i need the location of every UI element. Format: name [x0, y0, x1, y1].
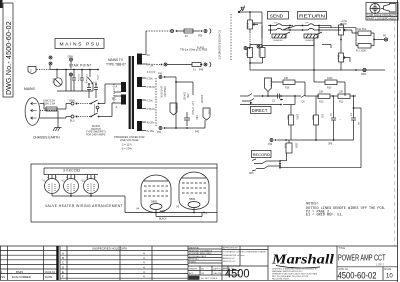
net label to heater elements	[197, 30, 222, 60]
svg-text:0v 20v: 0v 20v	[147, 129, 155, 133]
svg-text:BS45: BS45	[16, 270, 23, 274]
tube V1 heater	[43, 175, 60, 197]
svg-text:40 20v: 40 20v	[147, 121, 155, 125]
svg-text:1N4007: 1N4007	[183, 92, 186, 101]
svg-text:EXTERNAL RADII: EXTERNAL RADII	[189, 255, 206, 258]
pad BLU neutral	[70, 115, 90, 123]
svg-text:B: B	[62, 256, 64, 260]
svg-text:E: E	[62, 270, 64, 274]
svg-text:DO NOT SCALE: DO NOT SCALE	[201, 277, 218, 280]
svg-text:100K: 100K	[327, 77, 333, 80]
svg-text:TOLERANCE UNLESS OTHERWISE STA: TOLERANCE UNLESS OTHERWISE STATED	[223, 251, 267, 254]
svg-text:FOR 240V AMPS: FOR 240V AMPS	[86, 133, 106, 136]
fuse FS1	[43, 98, 66, 111]
svg-text:ISS: ISS	[1, 275, 6, 279]
inspection stamp	[366, 3, 398, 21]
svg-text:MAINS PSU: MAINS PSU	[60, 41, 101, 47]
svg-text:P43: P43	[158, 73, 163, 76]
RECORD label	[252, 151, 272, 158]
resistor R1 5K2	[245, 48, 253, 58]
svg-text:3 X ECC83: 3 X ECC83	[63, 169, 80, 173]
svg-text:TITLE: TITLE	[339, 247, 346, 250]
pad above star point	[49, 56, 73, 70]
svg-text:HOLE Ø ±0.1: HOLE Ø ±0.1	[223, 261, 236, 263]
svg-text:CHASSIS: CHASSIS	[273, 39, 283, 42]
svg-text:0 20v: 0 20v	[147, 77, 154, 81]
DWG number vertical box	[3, 3, 13, 97]
RETURN label	[298, 12, 327, 20]
svg-text:PART LOOSEFD ASSY: PART LOOSEFD ASSY	[367, 16, 397, 20]
bottom rail of V1 stage	[277, 138, 354, 146]
spark gap GD1	[88, 70, 99, 92]
output tube V5 5881	[176, 172, 209, 213]
primary winding P2	[121, 95, 126, 105]
bias trimmer VR3	[337, 39, 351, 70]
svg-text:CT8 0v: CT8 0v	[147, 107, 156, 111]
standby dashed wire	[156, 78, 166, 126]
svg-text:R12: R12	[339, 101, 344, 104]
svg-text:MAINS: MAINS	[24, 87, 35, 91]
svg-text:30PL: 30PL	[361, 73, 367, 76]
corner mark top-left	[0, 0, 3, 8]
drawing standards box	[188, 246, 240, 280]
svg-text:DIRECT: DIRECT	[252, 108, 268, 113]
star point bus	[50, 63, 99, 70]
svg-text:ANGLES ±1°: ANGLES ±1°	[223, 257, 235, 260]
svg-text:250V 1.6A: 250V 1.6A	[43, 101, 55, 105]
heater bus top	[44, 174, 98, 176]
svg-text:C50: C50	[175, 105, 178, 110]
svg-text:R1 5K2: R1 5K2	[245, 49, 248, 58]
pot VR2 10K	[339, 20, 353, 40]
long bus wire below jacks	[249, 58, 385, 71]
svg-text:4500: 4500	[225, 266, 250, 280]
pad P11	[244, 47, 250, 50]
svg-text:P48: P48	[199, 69, 204, 72]
svg-text:TYPE TBB-07: TYPE TBB-07	[106, 63, 126, 67]
title block	[337, 247, 398, 280]
svg-text:LINE VOLTAGE: LINE VOLTAGE	[120, 138, 139, 142]
capacitor C1	[65, 70, 67, 92]
svg-text:1 OF 2: 1 OF 2	[376, 263, 384, 267]
resistor R13 22K	[318, 91, 338, 104]
svg-text:R13: R13	[319, 101, 324, 104]
bottom title block	[0, 246, 398, 280]
svg-text:GRN: GRN	[68, 56, 74, 59]
svg-text:SEND: SEND	[270, 14, 284, 20]
star point lower bus	[57, 90, 93, 92]
wire live from inlet	[40, 103, 44, 105]
svg-text:BEND ALL: BEND ALL	[189, 258, 200, 261]
svg-text:B.A55: B.A55	[197, 46, 205, 50]
mains switch SW1	[86, 100, 106, 136]
svg-text:ECN NUMBER: ECN NUMBER	[12, 275, 31, 279]
svg-text:22K: 22K	[339, 91, 344, 94]
svg-text:APPROVED BY: APPROVED BY	[223, 247, 239, 250]
svg-text:INTERNAL BEND RADII: INTERNAL BEND RADII	[189, 252, 212, 255]
HT PSU pads P43	[147, 72, 176, 79]
tolerance box and model number	[222, 246, 268, 280]
vertical wire x262	[261, 12, 263, 38]
secondary winding S3	[137, 99, 142, 109]
svg-text:MAINS TX: MAINS TX	[108, 58, 124, 62]
Marshall logo box	[268, 246, 337, 281]
svg-text:R14: R14	[311, 116, 314, 121]
transformer T1 mains TX	[106, 53, 156, 151]
chassis earth symbol	[33, 128, 62, 140]
HT PSU bottom pads	[157, 120, 205, 134]
svg-text:22K: 22K	[319, 91, 324, 94]
svg-text:R.1 100K: R.1 100K	[356, 50, 366, 53]
output tube V4 5881	[136, 175, 171, 213]
capacitor C7	[349, 96, 360, 138]
svg-text:B C: B C	[112, 97, 116, 101]
svg-text:R16: R16	[285, 87, 290, 90]
svg-text:4500-60-02: 4500-60-02	[338, 270, 377, 280]
svg-text:100K: 100K	[296, 114, 299, 120]
svg-text:HT PSU: HT PSU	[191, 102, 195, 115]
svg-text:C: C	[62, 261, 64, 265]
svg-text:LEVEL: LEVEL	[246, 22, 249, 30]
svg-text:MATERIAL: MATERIAL	[189, 247, 200, 250]
svg-text:A: A	[62, 252, 64, 256]
svg-text:P2 C5: P2 C5	[269, 80, 272, 87]
record jack SK5	[249, 156, 361, 175]
SEND label	[268, 12, 289, 20]
DIRECT label	[251, 107, 272, 114]
svg-text:WHT/ORN: WHT/ORN	[160, 86, 163, 98]
primary link bracket	[113, 84, 115, 103]
svg-text:3A: 3A	[147, 53, 150, 57]
secondary winding S4	[137, 121, 142, 131]
svg-text:3P8: 3P8	[328, 143, 333, 146]
pad P15	[257, 45, 263, 48]
heater wires to output tubes	[125, 210, 217, 221]
capacitor C3	[80, 70, 87, 92]
svg-text:C50: C50	[195, 115, 198, 120]
resistor R11 5K2	[352, 28, 374, 36]
secondary winding S2	[137, 77, 142, 87]
svg-text:C3 10n: C3 10n	[85, 74, 87, 82]
svg-text:F: F	[62, 275, 64, 279]
resistor R12 22K	[338, 91, 356, 104]
heater bottom bus	[52, 195, 125, 212]
svg-text:FAX (0908) 376118: FAX (0908) 376118	[272, 278, 290, 281]
svg-text:1N4007: 1N4007	[200, 95, 203, 104]
svg-text:ISSUE: ISSUE	[384, 268, 392, 271]
wire neutral from inlet	[40, 117, 66, 119]
secondary taps	[142, 54, 146, 56]
svg-text:TIP: TIP	[305, 23, 309, 25]
svg-text:P42: P42	[195, 131, 200, 134]
RETURN jack SK3	[288, 23, 322, 43]
HT PSU wires	[175, 77, 193, 128]
svg-text:POWER AMP CCT: POWER AMP CCT	[338, 253, 386, 263]
svg-text:REMOVAL TOLERANCE: REMOVAL TOLERANCE	[189, 249, 213, 252]
svg-text:DIMENSIONS ±0.2mm: DIMENSIONS ±0.2mm	[223, 255, 245, 257]
svg-text:A: A	[116, 85, 118, 89]
pads P24	[268, 139, 276, 147]
svg-text:6 = 234v: 6 = 234v	[122, 147, 133, 151]
earth wire	[40, 110, 58, 112]
svg-text:R19: R19	[284, 144, 287, 149]
wire fuse to pads	[65, 104, 67, 110]
wire to send jack	[253, 22, 262, 24]
level trimmer VR1	[246, 20, 259, 32]
svg-text:SK5: SK5	[249, 172, 254, 175]
wire jacks to grid resistors	[250, 45, 262, 48]
svg-text:C2 10n: C2 10n	[77, 74, 79, 82]
dashed ground drop	[249, 32, 251, 46]
direct jack SK4	[240, 94, 282, 106]
power rail flag A	[238, 4, 246, 13]
svg-text:DRAWN: DRAWN	[189, 268, 198, 271]
svg-text:MOV: MOV	[52, 78, 55, 84]
resistor R14 vertical	[311, 96, 324, 138]
svg-text:R17: R17	[286, 116, 289, 121]
secondary winding S1	[137, 54, 142, 65]
varistor MOV1	[52, 70, 63, 87]
resistor R19 record divider	[284, 140, 298, 156]
svg-text:100K: 100K	[295, 143, 298, 149]
svg-text:5881: 5881	[189, 197, 196, 201]
svg-text:CHASSIS: CHASSIS	[305, 39, 315, 42]
sheet right dashed fold line	[394, 20, 396, 246]
svg-text:D50: D50	[186, 94, 189, 99]
svg-text:D: D	[62, 265, 64, 269]
resistor R11 100K	[356, 28, 374, 53]
svg-text:DATE: DATE	[45, 275, 52, 279]
svg-text:DWG.No.- 4500-60-02: DWG.No.- 4500-60-02	[6, 21, 13, 95]
notes text	[306, 203, 386, 218]
svg-text:R11 5K2: R11 5K2	[357, 28, 367, 31]
svg-text:2 = 117v: 2 = 117v	[122, 143, 133, 147]
page flag P2 left	[170, 103, 178, 115]
svg-text:BLACK: BLACK	[159, 218, 167, 221]
resistor R17 100K vertical	[286, 105, 299, 141]
svg-text:A: A	[244, 4, 246, 8]
page flag P2/C5	[265, 78, 273, 96]
wire direct line to record	[353, 107, 361, 168]
svg-text:RECORD: RECORD	[253, 152, 270, 157]
svg-text:CHASSIS EARTH: CHASSIS EARTH	[33, 136, 60, 140]
svg-text:A: A	[206, 212, 208, 216]
svg-text:V4: V4	[136, 207, 140, 211]
svg-text:STAR POINT: STAR POINT	[69, 63, 92, 67]
svg-text:P24: P24	[268, 143, 273, 146]
MAINS PSU label	[55, 39, 104, 49]
svg-text:Marshall: Marshall	[271, 252, 335, 267]
V1 input jog	[301, 95, 305, 104]
wire switch to transformer primary	[99, 103, 106, 105]
heater feed from left	[31, 164, 217, 175]
svg-text:V5: V5	[176, 205, 180, 209]
pad below star point	[70, 73, 73, 76]
pad BRN live	[70, 100, 91, 106]
svg-text:FINISH: FINISH	[189, 262, 196, 264]
wire direct to grid network	[281, 95, 319, 104]
svg-text:10K: 10K	[337, 55, 340, 60]
revision table	[0, 246, 58, 280]
resistor R15 100K	[314, 70, 345, 96]
svg-text:10-04-91: 10-04-91	[45, 270, 56, 274]
svg-text:CAD REF: CAD REF	[213, 272, 223, 275]
svg-text:CT8 0v: CT8 0v	[147, 85, 156, 89]
primary winding P1	[121, 82, 126, 92]
dashed drop from heater text	[230, 14, 232, 60]
svg-text:275V: 275V	[96, 75, 98, 81]
svg-text:P50: P50	[198, 35, 203, 38]
svg-text:VALVE HEATER WIRING ARRANGEMEN: VALVE HEATER WIRING ARRANGEMENT	[45, 204, 123, 208]
svg-text:APP: APP	[189, 272, 194, 275]
SEND jack SK2	[268, 23, 291, 43]
svg-text:RED: RED	[160, 210, 165, 213]
svg-text:10: 10	[386, 274, 393, 280]
resistor R3 100K	[258, 48, 266, 58]
sheet right border	[397, 0, 399, 282]
capacitor C4	[329, 96, 342, 138]
svg-text:JM: JM	[201, 273, 204, 275]
resistor R16 10K	[272, 77, 306, 96]
tube V2 heater	[62, 175, 79, 197]
svg-text:BLU: BLU	[70, 120, 75, 123]
tube V3 heater	[82, 175, 99, 197]
svg-text:A: A	[116, 105, 118, 109]
svg-text:P41: P41	[157, 131, 162, 134]
unspecified hole data table	[60, 246, 188, 280]
mains inlet connector SK1	[24, 87, 40, 125]
capacitor C2	[72, 70, 79, 92]
wire flag to level pot	[239, 11, 250, 13]
svg-text:0 20v: 0 20v	[147, 99, 154, 103]
svg-text:R15: R15	[327, 87, 332, 90]
svg-text:E1 = GRID REF. E1.: E1 = GRID REF. E1.	[306, 214, 344, 218]
svg-text:TO HEATER ELEMENTS: TO HEATER ELEMENTS	[218, 30, 222, 60]
svg-text:UNSPECIFIED HOLE DATA: UNSPECIFIED HOLE DATA	[92, 247, 127, 251]
heater fuse line F2	[146, 29, 211, 55]
svg-text:NOTES!: NOTES!	[306, 203, 319, 207]
valve heater wiring box	[31, 164, 217, 222]
pad 30PL	[361, 68, 367, 76]
page flag P2 right	[203, 108, 211, 120]
svg-text:STANDBY: STANDBY	[163, 86, 166, 98]
svg-text:10K: 10K	[321, 114, 324, 119]
svg-text:5881: 5881	[151, 200, 158, 204]
send-return loop wires	[262, 26, 356, 71]
HT fuse line F1	[146, 62, 211, 72]
node flag 240V	[28, 67, 50, 75]
filter capacitor C31	[93, 82, 98, 98]
output node pad	[373, 33, 388, 46]
core	[129, 56, 131, 129]
svg-text:RETURN: RETURN	[299, 14, 326, 20]
capacitor C5	[267, 94, 279, 103]
filter capacitor C30	[84, 82, 91, 98]
svg-text:10K: 10K	[284, 77, 289, 80]
capacitor C50	[184, 112, 198, 126]
svg-text:D51: D51	[208, 110, 211, 115]
svg-text:R3 100K: R3 100K	[258, 48, 261, 58]
